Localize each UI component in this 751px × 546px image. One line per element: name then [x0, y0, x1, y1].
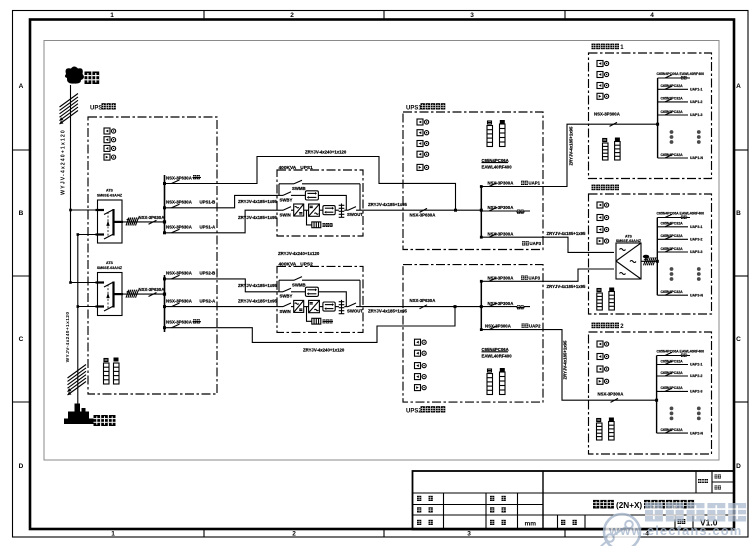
svg-text:C65N4PC06A EAWL40RF400: C65N4PC06A EAWL40RF400 [657, 212, 705, 216]
svg-text:NSX-3P630A: NSX-3P630A [166, 271, 192, 276]
svg-text:C65N4PC06A EAWL40RF400: C65N4PC06A EAWL40RF400 [657, 350, 705, 354]
svg-text:SM6SE-63A/4Z: SM6SE-63A/4Z [616, 239, 642, 243]
breaker C65N4PC32A feeder UAP1-N (双电源列头柜1) [658, 153, 704, 160]
wire: bypass riser inside UPS [278, 184, 280, 196]
inverter module of UPS1 [309, 204, 320, 216]
svg-text:C65N4PC06A EAWL40RF400: C65N4PC06A EAWL40RF400 [657, 72, 705, 76]
wire: mains to ATS2 input [71, 282, 98, 284]
kWh meter (UPS1 output cabinet) row 5 [417, 164, 429, 170]
svg-text:NSX-3P630A: NSX-3P630A [166, 200, 192, 205]
drawing title 双总线(2N+X)运行配电系统图 [593, 500, 614, 509]
stack caps (UPS2 output cabinet) [488, 368, 505, 372]
svg-text:ZRYJV-4x240+1x120: ZRYJV-4x240+1x120 [278, 251, 320, 256]
breaker NSX-3P630A (ATS2 incomer) [139, 287, 165, 297]
svg-text:D: D [736, 463, 741, 470]
breaker C65N4PC06A spare (单电源设备柜) + label EAWL40RF400 [657, 212, 705, 219]
wire: ATS output to bus (single source cabinet), cable hatch [641, 255, 657, 266]
svg-text:EAWL40RF400: EAWL40RF400 [482, 164, 513, 169]
svg-text:C65N4PC32A: C65N4PC32A [661, 84, 684, 88]
svg-text:SWMB: SWMB [292, 186, 306, 191]
svg-text:NSX-3P630A: NSX-3P630A [139, 215, 165, 220]
distribution bus (双电源列头柜2) [656, 356, 658, 434]
cable hatch mark on generator feeder [68, 365, 87, 396]
breaker NSX-3P300A spare feeder (UPS1 output cabinet) [481, 205, 530, 214]
svg-text:C65N4PC32A: C65N4PC32A [661, 428, 684, 432]
output transformer of UPS1 [339, 204, 345, 218]
wire: generator vertical feeder [77, 235, 79, 409]
svg-text:NSX-3P630A: NSX-3P630A [410, 298, 436, 303]
svg-text:UAP1-3: UAP1-3 [690, 113, 703, 117]
wire inverter-static switch of UPS2 [319, 306, 323, 308]
svg-text:UPS1-A: UPS1-A [200, 225, 216, 230]
bus 2 (UPS group 2) [164, 275, 166, 332]
breaker C65N4PC32A feeder UAP1-1 (双电源列头柜1) [658, 84, 703, 91]
svg-text:4: 4 [650, 12, 654, 19]
stack caps (input cabinet) [104, 358, 119, 362]
label C65N4PC06A / EAWL40RF400 (UPS2 output cabinet) [482, 347, 513, 359]
svg-text:ZRYJV-4x185+1x95: ZRYJV-4x185+1x95 [238, 199, 278, 204]
双电源列头柜1 enclosure (dash-dot) [589, 53, 712, 179]
kWh meter (双电源列头柜2) row 1 [597, 341, 609, 347]
svg-text:C: C [19, 336, 24, 343]
kWh meter (UPS2 output cabinet) row 3 [415, 363, 427, 369]
breaker C65N4PC06A spare (双电源列头柜2) + label EAWL40RF400 [657, 350, 705, 357]
wire static switch-transformer of UPS1 [335, 209, 339, 211]
svg-text:B: B [736, 210, 741, 217]
wire rectifier-inverter of UPS2 [304, 306, 309, 308]
cable UAP3 to single-source cabinet upper input: wire [543, 237, 614, 252]
wire: generator to ATS1 input [78, 234, 98, 236]
static bypass switch module of UPS2 [305, 287, 318, 296]
svg-text:NSX-3P630A: NSX-3P630A [166, 320, 192, 325]
svg-text:WYJV-4x240+1x120: WYJV-4x240+1x120 [65, 312, 71, 363]
feeder stacks (单电源设备柜) [597, 293, 603, 310]
svg-text:ZRYJV-4x185+1x95: ZRYJV-4x185+1x95 [368, 309, 408, 314]
svg-text:1: 1 [111, 531, 115, 538]
kWh meter (双电源列头柜1) row 4 [597, 93, 609, 99]
wire: ATS2 output to bus 2, cable hatch [123, 290, 165, 298]
breaker NSX-3P300A spare feeder (UPS2 output cabinet) [481, 301, 530, 310]
svg-text:UAP3-2: UAP3-2 [690, 238, 703, 242]
breaker NSX-3P300A feeder UAP3 (UPS1 output cabinet) [480, 231, 543, 246]
svg-text:ZRYJV-4x185+1x95: ZRYJV-4x185+1x95 [563, 340, 568, 380]
svg-text:ZRYJV-4x185+1x95: ZRYJV-4x185+1x95 [238, 283, 278, 288]
svg-text:NSX-3P300A: NSX-3P300A [488, 301, 514, 306]
svg-text:UAP2-2: UAP2-2 [690, 374, 703, 378]
UPS input cabinet enclosure (dash-dot) [88, 117, 217, 394]
kWh meter M2 (input cabinet) [104, 137, 116, 143]
breaker C65N4PC32A feeder UAP3-1 (单电源设备柜) [657, 222, 702, 229]
svg-text:2: 2 [292, 531, 296, 538]
wire: bypass riser inside UPS [278, 280, 280, 292]
svg-text:ZRYJV-4x185+1x95: ZRYJV-4x185+1x95 [569, 126, 574, 166]
breaker NSX-3P300A feeder UAP1 (UPS1 output cabinet) [480, 181, 543, 188]
svg-text:C65N4PC32A: C65N4PC32A [661, 359, 684, 363]
junction: maintenance bypass 1 drop [454, 209, 457, 212]
svg-text:SWIN: SWIN [280, 213, 291, 218]
feeder stacks (UPS1 output cabinet) [487, 126, 493, 147]
wire rectifier-inverter of UPS1 [304, 209, 309, 211]
distribution bus (UPS2 output cabinet) [480, 281, 482, 329]
wire: UPS1 output cable to output cabinet [363, 209, 419, 211]
svg-text:ZRYJV-4x240+1x120: ZRYJV-4x240+1x120 [305, 150, 347, 155]
feeder stack symbols (input cabinet) [104, 363, 110, 384]
kWh meter (UPS2 output cabinet) row 1 [415, 339, 427, 345]
label 市电 (utility power) [85, 72, 100, 85]
kWh meter (双电源列头柜1) row 3 [597, 83, 609, 89]
svg-text:C65N4PC32A: C65N4PC32A [661, 290, 684, 294]
label 单电源设备柜 [592, 185, 620, 191]
stack caps (单电源设备柜) [597, 288, 614, 292]
switch SWOUT (output) of UPS1 [344, 207, 363, 217]
svg-text:NSX-3P300A: NSX-3P300A [488, 276, 514, 281]
breaker C65N4PC32A feeder UAP2-1 (双电源列头柜2) [657, 359, 703, 366]
svg-text:2: 2 [290, 12, 294, 19]
svg-text:SWMB: SWMB [292, 282, 306, 287]
svg-text:NSX-3P630A: NSX-3P630A [139, 287, 165, 292]
breaker C65N2PC32A feeder UAP2-2 (双电源列头柜2) [657, 371, 703, 378]
rectifier module of UPS2 [294, 300, 304, 312]
kWh meter (UPS2 output cabinet) row 5 [415, 385, 427, 391]
wire: bypass to output join of UPS1 [318, 195, 346, 210]
battery string of UPS1 [307, 210, 334, 228]
svg-text:1: 1 [110, 12, 114, 19]
breaker NSX-3P630A feeder UPS1-A + wire [163, 210, 277, 234]
breaker NSX-3P300A feeder UAP2 (UPS2 output cabinet) [480, 323, 543, 331]
cable hatch mark on mains feeder [60, 94, 79, 125]
battery string of UPS2 [307, 307, 334, 325]
breaker NSX-3P630A feeder UPS1-B + wire [163, 195, 277, 209]
breaker NSX-3P630A (ATS1 incomer) [139, 215, 165, 225]
breaker NSX-3P300A incomer (row cabinet 1) [594, 111, 658, 126]
svg-text:ATS: ATS [106, 261, 114, 265]
switch SWMB (maintenance bypass) of UPS1 [279, 180, 360, 210]
svg-text:UAP2: UAP2 [529, 323, 541, 328]
feeder stacks (双电源列头柜2) [597, 423, 603, 440]
kWh meter (双电源列头柜1) row 2 [597, 72, 609, 78]
rectifier module of UPS1 [294, 204, 304, 216]
label 双电源列头柜1 [592, 44, 620, 50]
kWh meter M1 (input cabinet) [104, 128, 116, 134]
transfer switch ATS2 SM6SE-63A/4Z [96, 273, 124, 316]
breaker NSX-3P630A feeder UPS2-B + wire [163, 271, 277, 292]
svg-text:C: C [736, 336, 741, 343]
breaker C65N2PC32A feeder UAP1-2 (双电源列头柜1) [658, 97, 703, 104]
svg-text:400KVA UPS1: 400KVA UPS1 [279, 165, 314, 171]
svg-text:UAP1: UAP1 [529, 181, 541, 186]
svg-text:NSX-3P300A: NSX-3P300A [485, 323, 511, 328]
kWh meter (UPS2 output cabinet) row 2 [415, 350, 427, 356]
svg-text:C65N4PC32A: C65N4PC32A [661, 222, 684, 226]
wire: UPS2 output cable to output cabinet [363, 306, 420, 308]
svg-text:UAP3: UAP3 [530, 241, 542, 246]
switch SWIN (rectifier input) of UPS2 [277, 303, 294, 314]
svg-text:mm: mm [525, 521, 537, 528]
svg-text:SM6SE-63A/4Z: SM6SE-63A/4Z [97, 266, 123, 270]
switch SWMB (maintenance bypass) of UPS2 [279, 277, 360, 307]
svg-text:UPS1-B: UPS1-B [200, 200, 216, 205]
inverter module of UPS2 [309, 300, 320, 312]
breaker NSX-3P630A spare feeder (group2) + wire to maintenance bypass 2 [163, 307, 455, 343]
transfer switch ATS1 SM6SE-63A/4Z [96, 200, 124, 243]
inverter static switch module of UPS2 [323, 302, 335, 311]
label 发电机 (generator) [94, 415, 116, 426]
kWh meter (UPS1 output cabinet) row 3 [417, 141, 429, 147]
distribution bus (双电源列头柜1) [657, 78, 659, 158]
svg-text:ATS: ATS [625, 235, 633, 239]
svg-text:SM6SE-63A/4Z: SM6SE-63A/4Z [97, 194, 123, 198]
breaker C65N2PC32A feeder UAP1-3 (双电源列头柜1) [658, 110, 703, 117]
svg-text:UAP2-N: UAP2-N [690, 431, 704, 435]
kWh meter (单电源设备柜) row 1 [597, 202, 609, 208]
svg-text:A: A [736, 83, 741, 90]
svg-text:NSX-3P300A: NSX-3P300A [598, 392, 624, 397]
cable UAP1 to row cabinet 1: wire [543, 124, 609, 186]
static bypass switch module of UPS1 [305, 191, 318, 200]
svg-text:WYJV-4x240+1x120: WYJV-4x240+1x120 [61, 129, 67, 195]
svg-text:3: 3 [470, 12, 474, 19]
utility mains symbol (transformer blob) [65, 67, 84, 84]
svg-text:UAP1-2: UAP1-2 [690, 100, 703, 104]
svg-text:(2N+X): (2N+X) [616, 501, 642, 510]
svg-text:SWOUT: SWOUT [347, 212, 363, 217]
kWh meter (双电源列头柜1) row 1 [597, 61, 609, 67]
label 双电源列头柜2 [592, 323, 620, 329]
svg-text:ZRYJV-4x185+1x95: ZRYJV-4x185+1x95 [238, 298, 278, 303]
switch SWBY (static bypass input) of UPS2 [277, 288, 305, 299]
svg-text:UAP3-3: UAP3-3 [690, 250, 703, 254]
svg-text:C65N2PC32A: C65N2PC32A [661, 386, 684, 390]
kWh meter (单电源设备柜) row 3 [597, 227, 609, 233]
svg-text:SWBY: SWBY [280, 197, 293, 202]
wire inverter-static switch of UPS1 [319, 209, 323, 211]
stack caps (双电源列头柜1) [603, 138, 620, 142]
wire: mains vertical feeder [70, 85, 72, 283]
kWh meter M3 (input cabinet) [104, 145, 116, 151]
breaker C65N2PC32A feeder UAP2-3 (双电源列头柜2) [657, 386, 703, 393]
svg-text:UPS2-A: UPS2-A [200, 298, 216, 303]
wire: bypass to output join of UPS2 [318, 292, 346, 307]
cable UAP3 to single-source cabinet lower input: wire [543, 269, 614, 281]
UPS2 output distribution cabinet enclosure (dash-dot) [403, 265, 543, 403]
kWh meter (单电源设备柜) row 4 [597, 238, 609, 244]
UPS1 output distribution cabinet enclosure (dash-dot) [403, 112, 543, 250]
svg-text:UPS2: UPS2 [406, 409, 422, 415]
breaker C65N2PC32A feeder UAP3-3 (单电源设备柜) [657, 247, 702, 254]
generator symbol [64, 404, 94, 425]
switch SWBY (static bypass input) of UPS1 [277, 192, 305, 203]
svg-text:NSX-3P630A: NSX-3P630A [166, 175, 192, 180]
continuation dots (双电源列头柜2) [670, 407, 701, 421]
svg-text:NSX-3P300A: NSX-3P300A [488, 205, 514, 210]
distribution bus (UPS1 output cabinet) [480, 187, 482, 238]
kWh meter M4 (input cabinet) [104, 154, 116, 160]
drawing area rectangle [44, 41, 719, 461]
svg-text:C65N2PC32A: C65N2PC32A [661, 371, 684, 375]
wire: generator to ATS2 input [78, 306, 98, 308]
svg-text:UAP3-1: UAP3-1 [690, 225, 703, 229]
svg-text:NSX-3P630A: NSX-3P630A [166, 298, 192, 303]
svg-text:UAP1-N: UAP1-N [690, 156, 704, 160]
svg-text:NSX-3P300A: NSX-3P300A [488, 231, 514, 236]
breaker NSX-3P300A feeder UAP3 (UPS2 output cabinet) [480, 276, 543, 283]
switch SWOUT (output) of UPS2 [344, 303, 363, 313]
svg-text:NSX-3P630A: NSX-3P630A [166, 225, 192, 230]
svg-text:D: D [19, 463, 24, 470]
kWh meter (UPS1 output cabinet) row 4 [417, 151, 429, 157]
output transformer of UPS2 [339, 300, 345, 314]
svg-text:ZRYJV-4x185+1x95: ZRYJV-4x185+1x95 [238, 215, 278, 220]
svg-text:C65N2PC32A: C65N2PC32A [661, 110, 684, 114]
breaker C65N4PC32A feeder UAP3-N (单电源设备柜) [657, 290, 703, 297]
svg-text:4: 4 [645, 531, 649, 538]
kWh meter (UPS1 output cabinet) row 1 [417, 119, 429, 125]
svg-text:3: 3 [467, 531, 471, 538]
单电源设备柜 enclosure (dash-dot) [589, 194, 712, 314]
wire: ATS1 output to bus 1, cable hatch [123, 218, 165, 226]
UPS unit UPS1 400KVA enclosure [277, 170, 363, 236]
svg-text:ZRYJV-4x185+1x95: ZRYJV-4x185+1x95 [368, 202, 408, 207]
svg-text:UAP2-1: UAP2-1 [690, 363, 703, 367]
breaker C65N4PC06A spare (双电源列头柜1) + label EAWL40RF400 [657, 72, 705, 79]
svg-text:ZRYJV-4x240+1x120: ZRYJV-4x240+1x120 [303, 347, 345, 352]
svg-text:UAP2-3: UAP2-3 [690, 390, 703, 394]
watermark logo and text (elecfans) [599, 503, 746, 546]
kWh meter (双电源列头柜2) row 2 [597, 354, 609, 360]
bus 1 (UPS group 1) [164, 175, 166, 233]
cable UAP2 to row cabinet 2: wire [543, 330, 610, 401]
breaker NSX-3P630A incomer (UPS1 output cabinet) [410, 208, 482, 217]
svg-text:UAP3-N: UAP3-N [690, 293, 704, 297]
svg-text:SWIN: SWIN [280, 309, 291, 314]
svg-text:NSX-3P300A: NSX-3P300A [488, 181, 514, 186]
static transfer switch ATS (single source cabinet) SM6SE-63A/4Z [616, 235, 642, 280]
kWh meter (双电源列头柜2) row 3 [597, 366, 609, 372]
svg-text:SWBY: SWBY [280, 294, 293, 299]
stack caps (UPS1 output cabinet) [488, 120, 505, 124]
inverter static switch module of UPS1 [323, 206, 335, 215]
distribution bus (单电源设备柜) [656, 218, 658, 296]
breaker NSX-3P630A incomer (UPS2 output cabinet) [410, 298, 482, 309]
switch SWIN (rectifier input) of UPS1 [277, 207, 294, 218]
svg-text:400KVA UPS2: 400KVA UPS2 [279, 261, 314, 267]
svg-text:ZRYJV-4x185+1x95: ZRYJV-4x185+1x95 [547, 284, 587, 289]
svg-text:SWOUT: SWOUT [347, 308, 363, 313]
svg-text:C65N2PC32A: C65N2PC32A [661, 247, 684, 251]
breaker C65N2PC32A feeder UAP3-2 (单电源设备柜) [657, 234, 702, 241]
svg-text:C65N2PC32A: C65N2PC32A [661, 97, 684, 101]
kWh meter (双电源列头柜2) row 4 [597, 378, 609, 384]
svg-text:UAP3: UAP3 [529, 276, 541, 281]
label C65N4PC06A / EAWL40RF400 (UPS1 output cabinet) [482, 158, 513, 170]
svg-text:A: A [19, 83, 24, 90]
wire: mains to ATS1 input [71, 209, 98, 211]
continuation dots (单电源设备柜) [670, 267, 701, 281]
svg-text:C65N2PC32A: C65N2PC32A [661, 234, 684, 238]
continuation dots (双电源列头柜1) [670, 130, 701, 144]
svg-text:UAP1-1: UAP1-1 [690, 88, 703, 92]
svg-text:UPS2-B: UPS2-B [200, 271, 216, 276]
kWh meter (UPS2 output cabinet) row 4 [415, 374, 427, 380]
stack caps (双电源列头柜2) [597, 418, 614, 422]
svg-text:NSX-3P630A: NSX-3P630A [410, 213, 436, 218]
UPS unit UPS2 400KVA enclosure [277, 266, 363, 332]
breaker NSX-3P630A feeder UPS2-A + wire [163, 298, 277, 308]
feeder stacks (UPS2 output cabinet) [487, 374, 493, 395]
breaker NSX-3P630A spare feeder (group1) + wire to maintenance bypass 1 [163, 157, 456, 211]
kWh meter (UPS1 output cabinet) row 2 [417, 130, 429, 136]
kWh meter (单电源设备柜) row 2 [597, 215, 609, 221]
svg-text:EAWL40RF400: EAWL40RF400 [482, 354, 513, 359]
svg-text:www.elecfans.com: www.elecfans.com [608, 523, 742, 538]
双电源列头柜2 enclosure (dash-dot) [589, 332, 712, 454]
junction: maintenance bypass 2 drop [454, 305, 457, 308]
feeder stacks (双电源列头柜1) [603, 143, 609, 160]
svg-text:NSX-3P300A: NSX-3P300A [594, 111, 620, 116]
svg-text:ZRYJV-4x185+1x95: ZRYJV-4x185+1x95 [547, 231, 587, 236]
svg-text:UPS: UPS [90, 106, 102, 112]
svg-text:ATS: ATS [106, 189, 114, 193]
wire static switch-transformer of UPS2 [335, 306, 339, 308]
svg-text:C65N4PC32A: C65N4PC32A [661, 153, 684, 157]
breaker NSX-3P300A incomer (row cabinet 2) [598, 392, 657, 403]
title block [413, 471, 735, 530]
svg-text:UPS1: UPS1 [406, 106, 422, 112]
svg-text:B: B [19, 210, 24, 217]
breaker C65N4PC32A feeder UAP2-N (双电源列头柜2) [657, 428, 704, 435]
